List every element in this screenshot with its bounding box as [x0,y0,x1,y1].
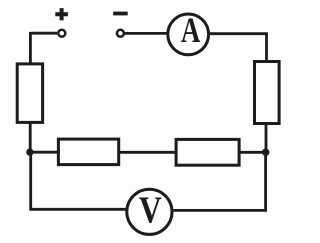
svg-text:V: V [139,189,162,231]
wire left resistor bottom to left junction [29,123,32,153]
resistor R3 [58,139,118,165]
wire from + terminal left and down to left resistor [30,32,57,65]
resistor R2 right vertical [255,62,280,124]
voltmeter V [127,189,172,234]
wire from - terminal to ammeter [125,32,168,35]
minus sign [113,12,128,16]
resistor R1 left vertical [17,64,42,123]
resistor R4 [176,139,239,165]
node left junction [26,148,33,155]
wire from ammeter right, corner, down to right resistor [210,32,267,62]
terminal + [58,30,65,37]
terminal - [117,30,124,37]
wire right resistor bottom to right junction [265,123,268,152]
wire right junction down and left to voltmeter [173,152,267,210]
wire R4 to right junction [239,151,264,154]
svg-text:A: A [181,10,201,49]
wire between R3 and R4 [119,151,177,154]
ammeter A [168,14,209,55]
plus sign [55,8,68,20]
wire voltmeter left to bottom-left corner [29,152,126,211]
wire left junction to middle resistor R3 [32,151,59,154]
node right junction [262,149,269,156]
